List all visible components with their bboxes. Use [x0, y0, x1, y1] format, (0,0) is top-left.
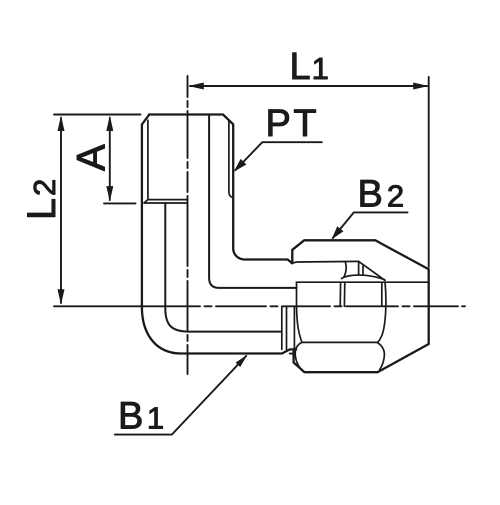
svg-text:A: A	[69, 144, 113, 171]
dimension L1 line	[190, 85, 427, 87]
nut bottom chamfer band left arc	[295, 342, 303, 371]
nut mid corner left bulge	[339, 282, 341, 306]
dimension L2 line	[60, 118, 62, 303]
svg-text:B2: B2	[358, 174, 405, 216]
nut mid corner right bulge	[377, 282, 386, 343]
arrowhead L2 bottom	[58, 289, 65, 305]
PT leader arrowhead	[234, 159, 247, 172]
body bottom edge stub at nut face	[290, 353, 294, 355]
nut corner edges	[359, 262, 363, 275]
dimension A line	[109, 118, 111, 200]
svg-text:PT: PT	[266, 103, 320, 145]
nut mid corner left	[343, 282, 345, 306]
horizontal centerline	[54, 305, 465, 307]
svg-text:L1: L1	[290, 46, 329, 88]
thread minor right line	[229, 120, 233, 197]
nut chamfer facet edge	[359, 261, 385, 280]
arrowhead A top	[106, 116, 113, 132]
inner profile right (bore line)	[209, 115, 296, 288]
nut left face chamfer arc	[344, 262, 346, 278]
L1 right extension line	[428, 77, 430, 267]
inner profile left	[165, 203, 280, 332]
nut flat boundary line	[291, 261, 358, 263]
flare nut B2 outline	[292, 240, 428, 372]
nut mid corner right	[381, 282, 383, 306]
arrowhead L1 left	[188, 83, 204, 90]
top extension line	[54, 114, 141, 116]
arrowhead L1 right	[413, 83, 429, 90]
sleeve vertical lines	[282, 306, 295, 350]
nut bottom chamfer band top edge	[302, 341, 377, 343]
B2 leader line	[333, 212, 408, 238]
A bottom extension line	[104, 202, 136, 204]
vertical centerline	[187, 76, 189, 374]
thread end lower line	[144, 200, 187, 203]
PT leader line	[236, 142, 322, 170]
svg-text:L2: L2	[20, 179, 64, 220]
nut middle face chamfer arc (dome)	[342, 275, 385, 280]
thread end upper line	[148, 199, 188, 201]
nut skirt boundary line	[296, 281, 428, 283]
B2 leader arrowhead	[332, 226, 344, 239]
arrowhead A bottom	[106, 186, 113, 202]
nut bottom chamfer band right arc	[377, 342, 384, 369]
thread minor left line	[147, 120, 149, 199]
B1 leader line	[115, 356, 246, 435]
svg-text:B1: B1	[118, 396, 164, 438]
B1 leader arrowhead	[236, 355, 248, 367]
arrowhead L2 top	[58, 116, 65, 132]
body outline (elbow with PT thread)	[142, 115, 296, 354]
flare cone line	[297, 283, 303, 342]
